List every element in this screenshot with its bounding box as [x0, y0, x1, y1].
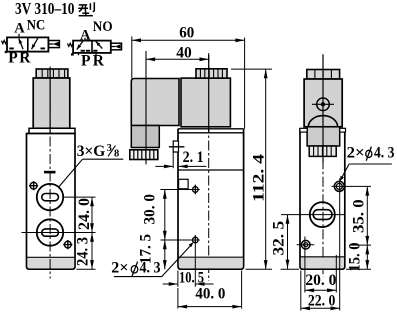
- dimension 30.0: [142, 190, 167, 241]
- svg-text:2. 1: 2. 1: [183, 149, 204, 166]
- dimension 10.5: [163, 244, 214, 287]
- hole 1 middle view: [193, 185, 199, 195]
- coil body middle view: [181, 78, 230, 127]
- dimension 22.0: [301, 271, 340, 311]
- hole 2 middle view: [193, 235, 199, 243]
- port right view: [281, 202, 345, 227]
- ribbed nut right view: [309, 146, 336, 156]
- inside tab middle view: [179, 179, 189, 189]
- top tab middle view: [173, 141, 178, 152]
- bottom gray strip middle view: [179, 258, 243, 268]
- dimension 24.3: [75, 233, 94, 270]
- valve symbol NC: [2, 17, 60, 66]
- body split line: [178, 169, 244, 171]
- dimension 2.1: [155, 149, 206, 168]
- coil ribs middle view: [196, 69, 227, 78]
- NC spring: [2, 40, 8, 43]
- screw right view: [297, 237, 315, 293]
- centerline middle view: [208, 53, 210, 281]
- svg-text:A: A: [14, 20, 25, 36]
- centerline solid over coil right view: [322, 55, 324, 164]
- flange left view: [29, 128, 75, 133]
- connector block: [131, 79, 179, 126]
- coil body left view: [33, 78, 70, 128]
- screw hole top-left: [29, 181, 38, 190]
- small slot on body top: [44, 171, 56, 174]
- dimension 32.5: [271, 215, 299, 270]
- coil ribs right view: [307, 70, 340, 80]
- svg-text:112. 4: 112. 4: [251, 154, 268, 202]
- gland block: [131, 126, 159, 148]
- dimension 40.0: [178, 271, 242, 309]
- coil circle detail: [312, 98, 334, 111]
- bottom extension left view: [77, 268, 96, 270]
- screw hole bottom-right: [63, 240, 72, 249]
- hole extension lines: [160, 190, 199, 241]
- port1 extension line: [64, 196, 96, 198]
- dimension 17.5: [138, 234, 167, 270]
- svg-text:32. 5: 32. 5: [271, 221, 288, 256]
- bracket tab right right view: [340, 128, 346, 132]
- dimension 40: [146, 44, 209, 162]
- svg-text:8: 8: [114, 149, 119, 160]
- bracket plate middle view: [178, 129, 244, 133]
- svg-text:NC: NC: [27, 17, 46, 33]
- label 3xG3/8: [59, 143, 124, 187]
- port 2 left view: [37, 219, 63, 245]
- svg-text:4. 3: 4. 3: [374, 144, 395, 161]
- dimension 20.0: [305, 255, 337, 293]
- armature block right view: [307, 127, 340, 146]
- NC pilot box: [48, 41, 59, 48]
- centerline left view: [49, 67, 51, 279]
- body left view: [27, 134, 76, 270]
- svg-text:2×: 2×: [111, 260, 128, 277]
- centerline right view: [322, 54, 324, 277]
- svg-text:R: R: [93, 53, 105, 70]
- svg-text:10. 5: 10. 5: [179, 269, 204, 286]
- NO left cell passage: [77, 41, 83, 50]
- bracket tab left right view: [300, 128, 307, 132]
- bottom gray strip right view: [301, 258, 344, 268]
- NC right cell passage: [32, 38, 38, 49]
- svg-text:2×: 2×: [347, 144, 365, 161]
- gland ribs: [130, 150, 158, 160]
- svg-text:20. 0: 20. 0: [305, 272, 336, 289]
- label 2x phi 4.3 right: [340, 144, 395, 181]
- gland centerline overlay: [145, 51, 147, 164]
- svg-text:24. 3: 24. 3: [75, 237, 92, 266]
- centerline solid over coil middle view: [208, 55, 210, 133]
- dimension 35.0: [348, 186, 371, 245]
- NC left cell passage: [19, 39, 23, 50]
- NO pilot box: [111, 43, 122, 50]
- coil body right view: [304, 79, 342, 127]
- svg-text:22. 0: 22. 0: [308, 293, 336, 310]
- svg-text:15. 0: 15. 0: [346, 242, 363, 271]
- svg-text:P: P: [81, 53, 91, 70]
- dimension 60: [132, 25, 245, 129]
- svg-text:40: 40: [176, 44, 192, 61]
- svg-text:40. 0: 40. 0: [195, 285, 225, 302]
- NO spring: [67, 43, 73, 46]
- bottom gray strip left view: [27, 258, 74, 268]
- title glyph 型: [78, 2, 94, 15]
- label 2x phi 4.3 middle: [111, 242, 193, 277]
- svg-text:NO: NO: [93, 19, 113, 35]
- NO right cell passage: [96, 41, 103, 49]
- centerline solid over coil left view: [49, 68, 51, 134]
- hole right view: [332, 178, 348, 310]
- body right view: [300, 128, 345, 269]
- coil ribs left view: [36, 69, 68, 78]
- svg-text:60: 60: [179, 25, 194, 42]
- port 1 left view: [37, 184, 63, 210]
- svg-text:3×G: 3×G: [77, 143, 106, 160]
- dome arch: [308, 116, 337, 127]
- dimension 112.4: [231, 69, 272, 269]
- svg-text:24. 0: 24. 0: [76, 198, 93, 230]
- svg-text:3V 310–10: 3V 310–10: [15, 0, 75, 18]
- svg-text:35. 0: 35. 0: [351, 199, 368, 233]
- valve symbol NO: [67, 19, 121, 70]
- dimension 15.0: [346, 242, 371, 271]
- body middle view: [178, 129, 244, 269]
- svg-text:4. 3: 4. 3: [140, 260, 161, 277]
- port2 horizontal centerline: [22, 232, 96, 234]
- svg-text:30. 0: 30. 0: [142, 194, 159, 225]
- pin through tab: [169, 146, 185, 148]
- dimension 24.0: [76, 197, 94, 232]
